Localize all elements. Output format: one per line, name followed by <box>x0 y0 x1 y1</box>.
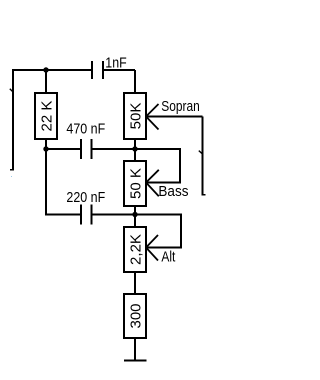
svg-text:22 K: 22 K <box>39 101 56 132</box>
svg-text:Sopran: Sopran <box>161 98 200 115</box>
svg-text:1nF: 1nF <box>105 55 126 72</box>
svg-text:Alt: Alt <box>161 249 176 266</box>
svg-text:300: 300 <box>128 303 145 328</box>
svg-text:220 nF: 220 nF <box>66 189 105 206</box>
svg-text:50 K: 50 K <box>128 168 145 199</box>
svg-text:Bass: Bass <box>158 183 188 200</box>
svg-text:2,2K: 2,2K <box>128 234 145 265</box>
svg-text:50K: 50K <box>128 103 145 130</box>
svg-text:470 nF: 470 nF <box>66 121 105 138</box>
